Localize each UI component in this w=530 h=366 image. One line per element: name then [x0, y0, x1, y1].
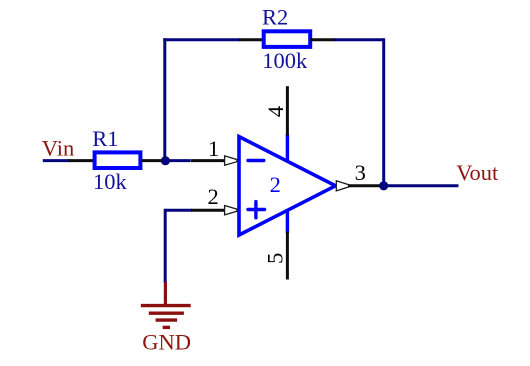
- wire output to Vout: [384, 184, 459, 187]
- wire stub junction to opamp pin1: [165, 159, 190, 162]
- resistor R2 pin 1 (left lead): [239, 38, 264, 41]
- op-amp U1 pin 3 lead: [348, 184, 384, 187]
- ground GND bar 2: [149, 312, 184, 315]
- svg-text:5: 5: [262, 253, 287, 264]
- wire junction to feedback (vertical up): [163, 38, 166, 160]
- op-amp U1 minus sign: [248, 159, 264, 162]
- wire pin2 horizontal: [165, 209, 192, 212]
- op-amp U1 triangle body: [239, 137, 336, 235]
- op-amp U1 pin 1 arrow: [225, 156, 237, 165]
- svg-text:R1: R1: [92, 126, 118, 151]
- node junction dot B (output/feedback): [379, 181, 388, 190]
- svg-text:2: 2: [208, 184, 219, 209]
- ground GND bar 4: [163, 326, 170, 329]
- ground GND bar 1: [141, 304, 191, 307]
- op-amp U1 pin 2 lead: [191, 209, 225, 212]
- svg-text:1: 1: [208, 136, 219, 161]
- svg-text:4: 4: [263, 106, 288, 117]
- op-amp U1 pin 5 inner stub: [286, 209, 289, 233]
- node junction dot A (R1/opamp/feedback): [161, 156, 170, 165]
- resistor R1 pin 2 (right lead): [142, 159, 166, 162]
- op-amp U1 plus sign: [248, 202, 265, 218]
- wire Vin stub: [43, 159, 70, 162]
- op-amp U1 pin 3 arrow: [336, 181, 349, 191]
- resistor R2 body: [264, 31, 311, 47]
- wire top horizontal to R2: [163, 38, 240, 41]
- svg-text:R2: R2: [262, 5, 288, 30]
- svg-text:10k: 10k: [93, 169, 128, 194]
- svg-text:3: 3: [355, 160, 366, 185]
- ground GND stem: [164, 282, 167, 305]
- svg-text:2: 2: [270, 172, 281, 197]
- resistor R1 pin 1 (left lead): [68, 159, 94, 162]
- ground GND bar 3: [156, 318, 178, 321]
- op-amp U1 pin 4 lead: [286, 86, 289, 135]
- svg-text:Vout: Vout: [456, 160, 499, 185]
- svg-text:GND: GND: [142, 329, 191, 354]
- wire pin2 vertical to GND: [164, 209, 167, 283]
- op-amp U1 pin 1 lead: [191, 159, 225, 162]
- op-amp U1 pin 2 arrow: [225, 206, 237, 215]
- svg-text:Vin: Vin: [42, 135, 74, 160]
- wire feedback vertical down to output: [382, 38, 385, 186]
- resistor R2 pin 2 (right lead): [310, 38, 335, 41]
- resistor R1 body: [95, 152, 141, 168]
- op-amp U1 pin 5 lead: [286, 232, 289, 280]
- svg-text:100k: 100k: [262, 48, 308, 73]
- op-amp U1 pin 4 inner stub: [286, 134, 289, 162]
- wire R2 to output corner: [334, 38, 384, 41]
